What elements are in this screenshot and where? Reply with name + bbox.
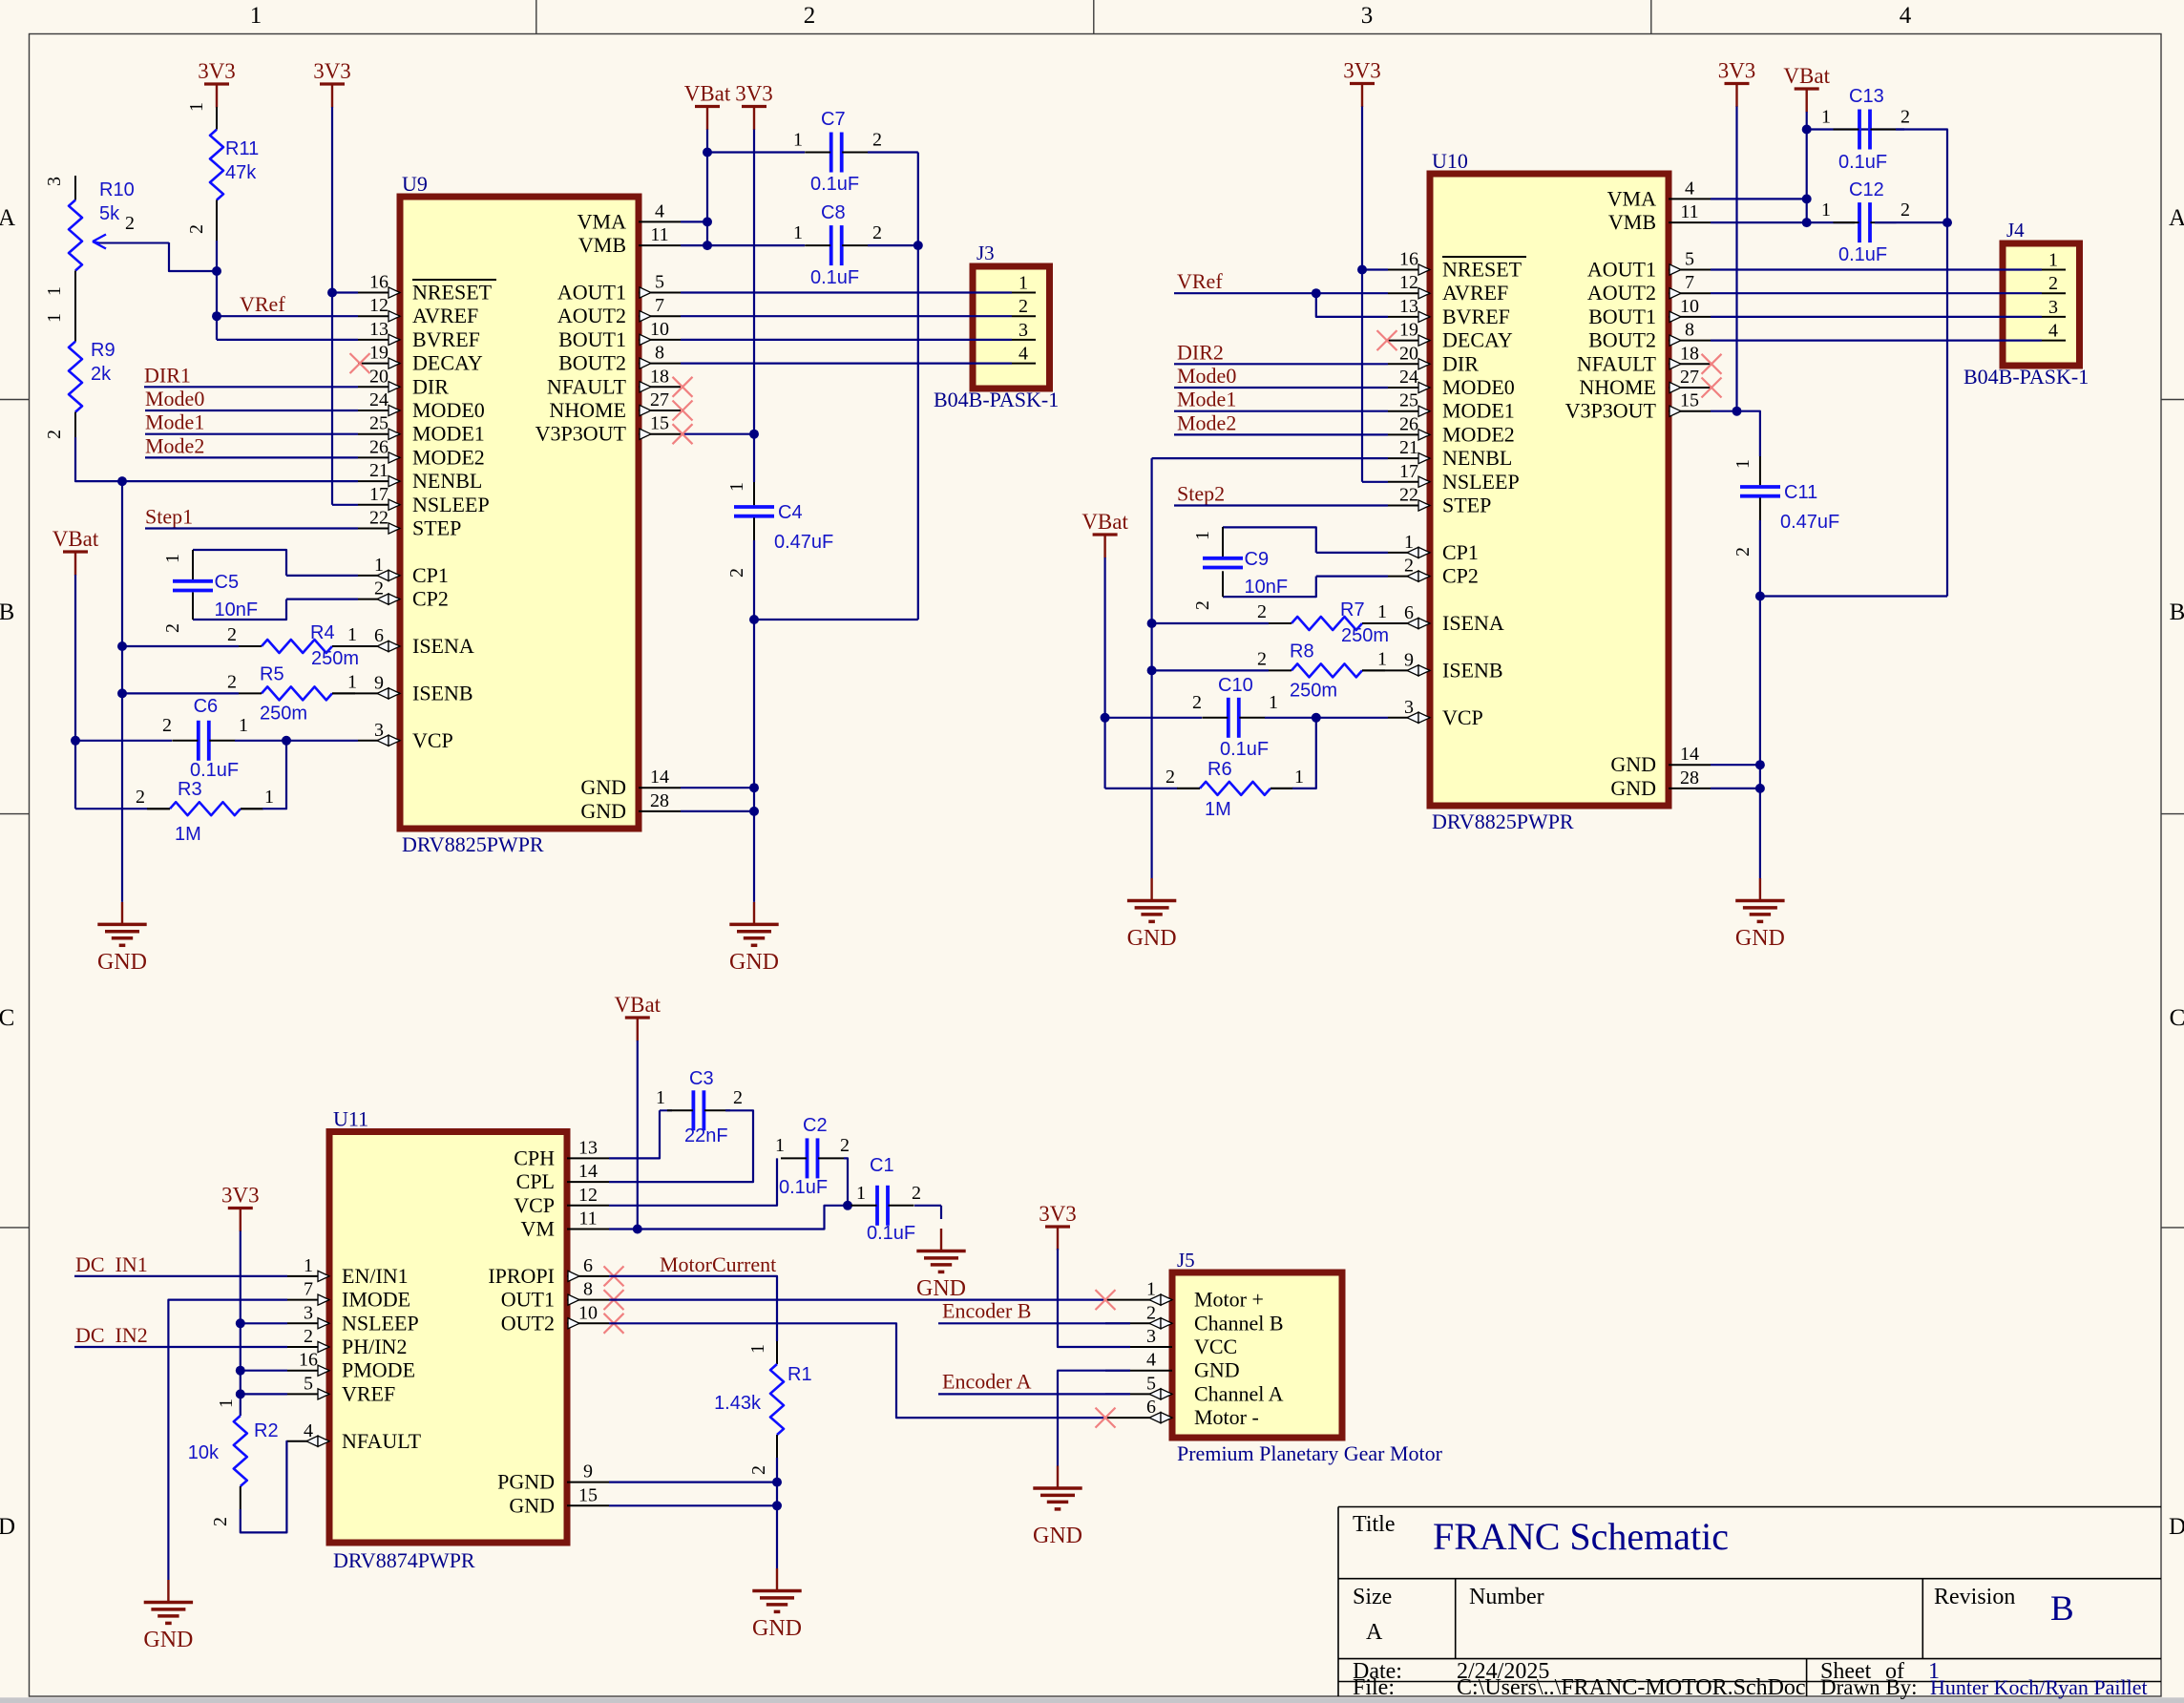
U11 pin 16 <box>287 1370 329 1372</box>
svg-text:R2: R2 <box>254 1420 279 1441</box>
svg-text:1: 1 <box>775 1135 785 1156</box>
svg-text:D: D <box>2169 1514 2184 1540</box>
svg-text:3: 3 <box>1404 697 1414 718</box>
wire VMA pin to rail <box>681 221 707 222</box>
no-ERC X NHOME U10 <box>1702 378 1722 398</box>
U11 pin 7 <box>287 1299 329 1301</box>
svg-text:1: 1 <box>856 1183 866 1204</box>
IC U9 DRV8825PWPR body <box>400 197 639 829</box>
svg-text:DRV8874PWPR: DRV8874PWPR <box>333 1548 475 1572</box>
svg-text:3: 3 <box>44 177 65 186</box>
svg-text:28: 28 <box>1680 767 1699 788</box>
svg-text:2: 2 <box>162 715 172 736</box>
svg-text:VRef: VRef <box>1177 269 1223 293</box>
U9 pin 11 <box>639 244 681 246</box>
svg-text:4: 4 <box>1146 1350 1156 1371</box>
wire GND pin 14 <box>681 787 754 788</box>
wire C9 to CP1 U10 <box>1316 552 1388 554</box>
svg-text:NENBL: NENBL <box>1442 446 1512 470</box>
resistor R3 1M <box>75 808 148 809</box>
svg-text:AOUT2: AOUT2 <box>557 304 626 327</box>
svg-text:VCP: VCP <box>412 728 453 752</box>
svg-text:2: 2 <box>1900 200 1910 221</box>
svg-text:4: 4 <box>655 200 664 221</box>
junction 3V3-VREF U11 <box>236 1389 245 1398</box>
svg-text:C6: C6 <box>194 696 219 717</box>
wire to U10 pin17 <box>1362 481 1388 483</box>
svg-text:R7: R7 <box>1340 599 1365 620</box>
wire to VREF pin U11 <box>241 1393 287 1395</box>
svg-text:B04B-PASK-1: B04B-PASK-1 <box>1963 365 2089 389</box>
svg-text:1: 1 <box>1732 459 1753 469</box>
svg-text:28: 28 <box>650 790 669 811</box>
U10 pin 2 CP2 <box>1388 576 1430 578</box>
svg-text:GND: GND <box>1610 752 1656 776</box>
svg-text:19: 19 <box>1399 320 1418 341</box>
no-ERC X NHOME U9 <box>673 401 693 421</box>
U9 pin 13 BVREF <box>358 339 400 341</box>
U10 pin 16 NRESET <box>1388 269 1430 271</box>
wire ground rail horizontal U10 <box>1760 595 1947 597</box>
svg-text:NRESET: NRESET <box>1442 258 1522 282</box>
svg-text:6: 6 <box>1404 602 1414 623</box>
svg-text:STEP: STEP <box>1442 494 1491 517</box>
svg-text:Size: Size <box>1353 1585 1392 1609</box>
resistor R7 250m <box>1152 622 1269 624</box>
svg-text:1: 1 <box>726 482 747 492</box>
svg-text:7: 7 <box>1685 272 1694 293</box>
svg-text:22nF: 22nF <box>684 1125 728 1146</box>
svg-text:7: 7 <box>304 1279 313 1300</box>
svg-text:R1: R1 <box>787 1364 812 1385</box>
svg-text:2: 2 <box>872 222 882 243</box>
wire VRef to BVREF U10 <box>1316 293 1388 317</box>
title block outline <box>1338 1506 2161 1508</box>
svg-text:C10: C10 <box>1218 675 1253 696</box>
U9 pin 5 <box>639 292 681 294</box>
junction VBat-VMA <box>703 217 712 226</box>
J5 pin 3 <box>1105 1346 1172 1348</box>
capacitor C13 0.1uF <box>1807 128 1904 130</box>
svg-text:BOUT2: BOUT2 <box>558 351 626 375</box>
U9 pin 21 NENBL <box>358 480 400 482</box>
U9 pin 16 NRESET <box>358 292 400 294</box>
svg-text:AVREF: AVREF <box>412 304 478 327</box>
svg-text:13: 13 <box>578 1137 598 1158</box>
svg-text:OUT1: OUT1 <box>501 1288 555 1312</box>
svg-text:1: 1 <box>656 1087 665 1108</box>
J4 pin 2 <box>2042 292 2066 294</box>
svg-text:R3: R3 <box>178 779 202 800</box>
junction VBat-C7 <box>703 148 712 158</box>
svg-text:1: 1 <box>1192 531 1213 540</box>
svg-text:MODE1: MODE1 <box>1442 399 1515 423</box>
svg-text:15: 15 <box>1680 390 1699 411</box>
U11 pin 15 right <box>567 1504 609 1506</box>
svg-text:27: 27 <box>1680 367 1699 388</box>
svg-text:EN/IN1: EN/IN1 <box>342 1264 409 1288</box>
wire BOUT1 to J4.3 <box>1711 316 2042 318</box>
U10 pin 9 ISENB <box>1388 669 1430 671</box>
svg-text:1: 1 <box>44 313 65 323</box>
svg-text:R4: R4 <box>310 622 335 643</box>
svg-text:C4: C4 <box>778 502 803 523</box>
svg-text:BVREF: BVREF <box>412 327 480 351</box>
zone ticks right <box>2161 399 2184 401</box>
svg-text:20: 20 <box>1399 343 1418 364</box>
wire 3V3 down to R2 <box>240 1231 241 1417</box>
svg-text:Step1: Step1 <box>145 505 193 529</box>
wire R11 to VRef node <box>216 241 218 271</box>
svg-text:IMODE: IMODE <box>342 1288 410 1312</box>
svg-text:5k: 5k <box>99 203 120 224</box>
svg-text:12: 12 <box>1399 272 1418 293</box>
svg-text:8: 8 <box>1685 320 1694 341</box>
svg-text:A: A <box>0 205 15 231</box>
svg-text:2: 2 <box>748 1465 769 1475</box>
U10 pin 7 <box>1669 292 1711 294</box>
svg-text:0.1uF: 0.1uF <box>1838 152 1887 173</box>
svg-text:22: 22 <box>369 508 388 529</box>
junction V3P3OUT U10 <box>1732 407 1742 416</box>
svg-text:22: 22 <box>1399 485 1418 506</box>
svg-text:3V3: 3V3 <box>313 59 351 83</box>
J4 pin 1 <box>2042 269 2066 271</box>
wire VRef node down to AVREF/BVREF <box>216 271 218 340</box>
svg-text:NHOME: NHOME <box>1579 375 1656 399</box>
svg-text:AVREF: AVREF <box>1442 281 1508 305</box>
IC U10 DRV8825PWPR body <box>1430 174 1669 806</box>
svg-text:1: 1 <box>1146 1279 1156 1300</box>
connector J3 B04B-PASK-1 <box>973 266 1050 389</box>
svg-text:NENBL: NENBL <box>412 469 482 493</box>
U11 pin 3 <box>287 1322 329 1324</box>
svg-text:NHOME: NHOME <box>549 398 626 422</box>
U11 pin 10 right <box>567 1322 609 1324</box>
R10 wiper arrow <box>95 242 169 244</box>
svg-text:27: 27 <box>650 389 669 410</box>
svg-text:VCC: VCC <box>1194 1335 1237 1358</box>
U11 pin 4 <box>287 1440 329 1442</box>
svg-text:3V3: 3V3 <box>221 1184 260 1208</box>
U10 pin 24 MODE0 <box>1388 387 1430 389</box>
svg-text:6: 6 <box>374 625 384 646</box>
svg-text:1: 1 <box>250 3 262 29</box>
capacitor C8 0.1uF <box>707 244 805 246</box>
svg-text:Step2: Step2 <box>1177 482 1225 506</box>
wire GND pin U11 <box>609 1504 777 1506</box>
svg-text:1M: 1M <box>1205 799 1231 820</box>
J5 pin 4 <box>1105 1370 1172 1372</box>
U10 pin 1 CP1 <box>1388 552 1430 554</box>
junction NENBL <box>117 476 127 486</box>
resistor R8 250m <box>1152 669 1269 671</box>
svg-text:C13: C13 <box>1849 86 1884 107</box>
svg-text:OUT2: OUT2 <box>501 1311 555 1335</box>
svg-text:VREF: VREF <box>342 1381 395 1405</box>
svg-text:13: 13 <box>369 319 388 340</box>
svg-text:DC IN2: DC IN2 <box>75 1323 148 1347</box>
svg-text:10nF: 10nF <box>1245 577 1289 598</box>
svg-text:0.1uF: 0.1uF <box>1220 739 1269 760</box>
svg-text:Mode1: Mode1 <box>145 410 204 434</box>
zone ticks top <box>535 0 537 34</box>
svg-text:C:\Users\..\FRANC-MOTOR.SchDoc: C:\Users\..\FRANC-MOTOR.SchDoc <box>1457 1675 1806 1700</box>
svg-text:CP1: CP1 <box>1442 540 1479 564</box>
capacitor C1 0.1uF <box>848 1205 850 1207</box>
svg-text:1: 1 <box>239 715 248 736</box>
svg-text:1: 1 <box>216 1398 237 1408</box>
wire C10 right to VCP pin U10 <box>1316 717 1388 719</box>
svg-text:VM: VM <box>521 1217 555 1241</box>
wire R10 wiper to VRef node <box>169 242 217 271</box>
svg-text:VBat: VBat <box>1081 510 1128 534</box>
wire U10 GND pin 14 <box>1711 764 1760 766</box>
U9 pin 12 AVREF <box>358 315 400 317</box>
svg-text:C12: C12 <box>1849 179 1884 200</box>
no-ERC X OUT2 <box>604 1314 624 1334</box>
svg-text:2: 2 <box>804 3 816 29</box>
svg-text:1: 1 <box>264 787 274 808</box>
svg-text:2: 2 <box>210 1517 231 1526</box>
J5 pin 2 <box>1105 1322 1172 1324</box>
svg-text:CPH: CPH <box>514 1146 555 1169</box>
svg-text:2: 2 <box>2048 273 2058 294</box>
svg-text:1: 1 <box>1821 200 1831 221</box>
wire C4 bottom to ground rail <box>754 619 918 620</box>
svg-text:GND: GND <box>580 775 626 799</box>
wire to pin 17 NSLEEP <box>332 504 358 506</box>
wire C5 top to CP1 pin <box>286 575 358 577</box>
svg-text:GND: GND <box>1127 926 1177 951</box>
svg-text:A: A <box>2169 205 2184 231</box>
U10 pin 6 ISENA <box>1388 622 1430 624</box>
svg-text:16: 16 <box>369 272 388 293</box>
svg-text:U11: U11 <box>333 1107 368 1131</box>
resistor R11 47k <box>216 107 218 130</box>
svg-text:2: 2 <box>44 430 65 439</box>
svg-text:C: C <box>0 1005 14 1031</box>
svg-text:C9: C9 <box>1245 549 1270 570</box>
svg-text:2: 2 <box>733 1087 743 1108</box>
wire IPROPI to R1 <box>609 1276 777 1341</box>
svg-text:1: 1 <box>347 671 357 692</box>
svg-text:1.43k: 1.43k <box>714 1393 762 1414</box>
svg-text:Mode2: Mode2 <box>1177 410 1236 434</box>
svg-text:MotorCurrent: MotorCurrent <box>660 1252 776 1276</box>
svg-text:14: 14 <box>1680 744 1699 765</box>
wire ground rail to GND pins U10 <box>1759 597 1761 879</box>
svg-text:3V3: 3V3 <box>1718 59 1756 83</box>
svg-text:C11: C11 <box>1784 482 1817 503</box>
svg-text:9: 9 <box>1404 649 1414 670</box>
U9 pin 27 <box>639 410 681 411</box>
capacitor C10 0.1uF <box>1105 717 1202 719</box>
svg-text:Encoder A: Encoder A <box>942 1369 1032 1393</box>
svg-text:NSLEEP: NSLEEP <box>1442 470 1520 494</box>
U11 pin 5 <box>287 1393 329 1395</box>
svg-text:MODE2: MODE2 <box>412 445 485 469</box>
svg-text:MODE0: MODE0 <box>1442 375 1515 399</box>
wire AOUT2 to J3.2 <box>681 315 1012 317</box>
svg-text:3: 3 <box>304 1302 313 1323</box>
ground GND (sense rail) <box>121 902 123 925</box>
J5 pin 5 <box>1105 1393 1172 1395</box>
svg-text:1: 1 <box>1269 692 1278 713</box>
svg-text:5: 5 <box>655 272 664 293</box>
svg-text:ISENB: ISENB <box>412 681 473 704</box>
wire to NSLEEP pin U11 <box>241 1322 287 1324</box>
svg-text:GND: GND <box>916 1276 966 1301</box>
svg-text:Title: Title <box>1353 1512 1395 1537</box>
wire pin15 to C11 U10 <box>1711 411 1760 456</box>
wire to PMODE pin U11 <box>241 1370 287 1372</box>
J4 pin 4 <box>2042 340 2066 342</box>
J3 pin 2 <box>1012 315 1036 317</box>
no-ERC X OUT1 <box>604 1290 624 1310</box>
svg-text:Motor -: Motor - <box>1194 1405 1259 1429</box>
svg-text:16: 16 <box>299 1350 318 1371</box>
svg-text:GND: GND <box>1033 1524 1082 1548</box>
svg-text:DC IN1: DC IN1 <box>75 1252 148 1276</box>
capacitor C5 10nF <box>193 550 286 576</box>
wire VBat down to VMB <box>706 130 708 246</box>
IC U11 DRV8874PWPR body <box>329 1132 567 1544</box>
U9 pin 28 <box>639 810 681 812</box>
svg-text:0.1uF: 0.1uF <box>190 760 239 781</box>
capacitor C12 0.1uF <box>1711 221 1855 223</box>
svg-text:VCP: VCP <box>1442 705 1483 729</box>
svg-text:5: 5 <box>1146 1373 1156 1394</box>
svg-text:VMA: VMA <box>577 209 626 233</box>
svg-text:4: 4 <box>2048 321 2058 342</box>
svg-text:21: 21 <box>369 460 388 481</box>
svg-text:0.1uF: 0.1uF <box>810 267 859 288</box>
svg-text:11: 11 <box>1680 201 1698 222</box>
svg-text:Premium Planetary Gear Motor: Premium Planetary Gear Motor <box>1177 1441 1443 1465</box>
svg-text:VBat: VBat <box>684 82 731 106</box>
svg-text:B04B-PASK-1: B04B-PASK-1 <box>934 388 1059 411</box>
junction VBat-VM <box>633 1225 642 1234</box>
U10 pin 18 <box>1669 363 1711 365</box>
wire VRef to pin 12 <box>217 315 358 317</box>
wire C1 to GND <box>940 1206 942 1219</box>
svg-text:9: 9 <box>583 1461 593 1482</box>
no-ERC X DECAY U9 <box>350 353 370 373</box>
svg-text:CP2: CP2 <box>412 587 449 611</box>
junction 3V3-NRESET U10 <box>1357 265 1367 275</box>
svg-text:26: 26 <box>369 436 388 457</box>
svg-text:VBat: VBat <box>615 993 661 1017</box>
svg-text:3: 3 <box>374 720 384 741</box>
ground GND (R1) <box>776 1568 778 1591</box>
svg-text:MODE2: MODE2 <box>1442 422 1515 446</box>
svg-text:STEP: STEP <box>412 516 461 540</box>
svg-text:9: 9 <box>374 672 384 693</box>
svg-text:VBat: VBat <box>52 527 99 551</box>
svg-text:R5: R5 <box>260 663 284 684</box>
U11 pin 13 right <box>567 1157 609 1159</box>
svg-text:U10: U10 <box>1432 149 1468 173</box>
junction 3V3-NSLEEP U11 <box>236 1318 245 1328</box>
U9 pin 4 <box>639 221 681 222</box>
svg-text:7: 7 <box>655 295 664 316</box>
svg-text:47k: 47k <box>225 162 257 183</box>
svg-text:ISENB: ISENB <box>1442 658 1503 682</box>
U11 pin 8 right <box>567 1299 609 1301</box>
svg-text:250m: 250m <box>260 703 307 724</box>
J3 pin 1 <box>1012 292 1036 294</box>
svg-text:11: 11 <box>650 224 668 245</box>
svg-text:C1: C1 <box>870 1155 894 1176</box>
svg-text:BOUT2: BOUT2 <box>1588 328 1656 352</box>
wire C13 to ground rail corner <box>1896 130 1947 597</box>
wire VMB pin to rail <box>681 244 707 246</box>
svg-text:1: 1 <box>162 554 183 563</box>
capacitor C6 0.1uF <box>75 740 172 742</box>
svg-text:VMA: VMA <box>1607 186 1656 210</box>
svg-text:BOUT1: BOUT1 <box>1588 305 1656 328</box>
no-ERC X DECAY U10 <box>1377 330 1397 350</box>
U11 pin 14 right <box>567 1181 609 1183</box>
svg-text:GND: GND <box>1735 926 1785 951</box>
capacitor C9 10nF <box>1223 527 1316 553</box>
U9 pin 6 ISENA <box>358 645 400 647</box>
svg-text:10: 10 <box>650 319 669 340</box>
junction VBat-C6 <box>71 736 80 746</box>
J4 pin 3 <box>2042 316 2066 318</box>
svg-text:PH/IN2: PH/IN2 <box>342 1335 407 1358</box>
svg-text:J3: J3 <box>976 242 995 264</box>
wire to pin 16 NRESET <box>332 291 358 293</box>
U9 pin 19 DECAY <box>358 363 400 365</box>
junction VRef U10 <box>1312 288 1321 298</box>
svg-text:Channel B: Channel B <box>1194 1311 1284 1335</box>
capacitor C7 0.1uF <box>707 151 805 153</box>
connector J5 motor <box>1172 1272 1342 1438</box>
svg-text:A: A <box>1366 1620 1383 1645</box>
wire R2 bottom to NFAULT <box>241 1441 287 1533</box>
U9 pin 26 MODE2 <box>358 456 400 458</box>
svg-text:1: 1 <box>44 286 65 296</box>
ground GND (U9) <box>753 902 755 925</box>
U10 pin 8 <box>1669 340 1711 342</box>
junction VBat-VMB <box>703 241 712 250</box>
svg-text:2: 2 <box>227 624 237 645</box>
wire pin15 to node <box>681 433 754 435</box>
svg-text:2: 2 <box>1404 556 1414 577</box>
svg-text:0.1uF: 0.1uF <box>810 174 859 195</box>
svg-text:5: 5 <box>304 1373 313 1394</box>
svg-text:1: 1 <box>793 222 803 243</box>
U11 pin 9 right <box>567 1482 609 1483</box>
svg-text:NFAULT: NFAULT <box>547 374 627 398</box>
svg-text:Mode2: Mode2 <box>145 433 204 457</box>
svg-text:GND: GND <box>752 1616 802 1641</box>
svg-text:DIR2: DIR2 <box>1177 340 1224 364</box>
svg-text:Channel A: Channel A <box>1194 1381 1284 1405</box>
svg-text:ISENA: ISENA <box>412 634 474 658</box>
U10 pin 10 <box>1669 316 1711 318</box>
wire BVREF to pin 13 <box>217 339 358 341</box>
svg-text:0.1uF: 0.1uF <box>779 1177 828 1198</box>
svg-text:25: 25 <box>369 413 388 434</box>
J5 pin 1 <box>1105 1299 1172 1301</box>
svg-text:C2: C2 <box>803 1115 828 1136</box>
U9 pin 10 <box>639 339 681 341</box>
svg-text:2: 2 <box>1732 547 1753 557</box>
svg-text:GND: GND <box>1610 776 1656 800</box>
